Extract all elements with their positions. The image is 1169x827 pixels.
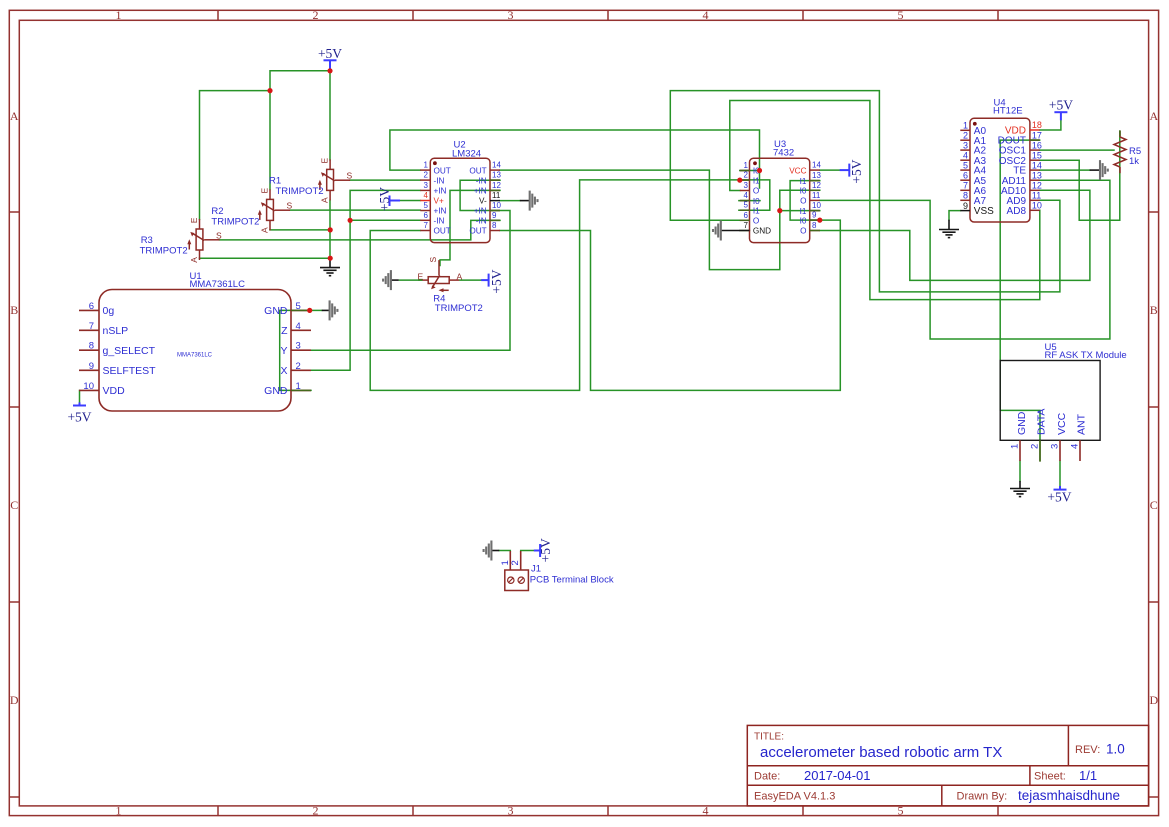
svg-text:HT12E: HT12E	[993, 106, 1023, 117]
svg-text:9: 9	[492, 211, 497, 220]
wire U5 GND pin to ground	[1019, 461, 1021, 481]
svg-text:S: S	[347, 171, 353, 181]
U1 pin names	[103, 305, 157, 397]
junction dots	[267, 68, 822, 313]
svg-text:V-: V-	[479, 197, 487, 206]
svg-text:I1: I1	[800, 207, 807, 216]
svg-text:X: X	[280, 365, 287, 377]
wire U2 pin12 to R4 S	[440, 190, 500, 265]
svg-text:17: 17	[1032, 130, 1042, 140]
svg-text:I0: I0	[753, 197, 760, 206]
wire U5 VCC pin to +5V	[1059, 461, 1061, 486]
svg-text:D: D	[1149, 693, 1158, 707]
U3 pin names	[753, 167, 771, 236]
wire U2 pin1 to U3 pin1	[390, 130, 760, 188]
svg-text:6: 6	[744, 211, 749, 220]
svg-text:2: 2	[963, 130, 968, 140]
svg-text:+IN: +IN	[474, 187, 487, 196]
svg-text:4: 4	[744, 191, 749, 200]
U2 pin numbers	[424, 161, 429, 230]
svg-text:TRIMPOT2: TRIMPOT2	[435, 303, 483, 314]
svg-text:5: 5	[744, 201, 749, 210]
ground (R1/R2/R3 rail)	[320, 258, 340, 276]
trimpot R4 TRIMPOT2 (horizontal)	[418, 257, 483, 315]
wire U2 pin7 to U3 pin2/pin5 net	[370, 180, 770, 391]
svg-text:2: 2	[1030, 444, 1041, 449]
wire R2 A to ground rail	[270, 229, 330, 231]
svg-text:6: 6	[963, 170, 968, 180]
wire U1 X to U2 pin3 and pin6	[311, 190, 420, 370]
svg-text:+5V: +5V	[377, 187, 392, 211]
svg-text:E: E	[259, 188, 269, 194]
svg-text:R2: R2	[211, 206, 223, 217]
svg-text:Z: Z	[281, 325, 288, 337]
+5V supply (U3 VCC)	[840, 159, 864, 183]
svg-text:2: 2	[510, 560, 521, 565]
wire U1 VDD to +5V	[79, 390, 81, 402]
svg-text:13: 13	[1032, 170, 1042, 180]
resistor R5 1k	[1114, 131, 1141, 174]
svg-text:A: A	[320, 197, 330, 203]
svg-text:O: O	[800, 197, 806, 206]
svg-text:2: 2	[296, 361, 301, 372]
svg-text:TITLE:: TITLE:	[754, 732, 784, 743]
svg-text:-IN: -IN	[476, 217, 487, 226]
IC U1 MMA7361LC	[79, 271, 311, 411]
svg-text:4: 4	[296, 321, 301, 332]
svg-text:4: 4	[963, 150, 968, 160]
wire U3 pin14 to +5V	[820, 169, 840, 171]
svg-text:-IN: -IN	[434, 176, 445, 185]
svg-text:S: S	[216, 230, 222, 240]
svg-text:7432: 7432	[773, 148, 794, 159]
svg-text:A: A	[189, 257, 199, 263]
ground (U3 GND)	[713, 221, 740, 241]
svg-text:SELFTEST: SELFTEST	[103, 365, 157, 377]
junction U3 pin9	[817, 218, 822, 223]
junction R3 A on ground rail	[328, 256, 333, 261]
trimpot R3 TRIMPOT2	[140, 217, 222, 263]
U1 pin numbers	[83, 301, 94, 392]
svg-text:1: 1	[500, 560, 511, 565]
svg-text:C: C	[10, 498, 18, 512]
svg-text:1: 1	[116, 804, 122, 818]
U2 pin names	[434, 166, 451, 235]
svg-text:GND: GND	[1016, 411, 1028, 435]
svg-text:-IN: -IN	[434, 217, 445, 226]
svg-text:3: 3	[744, 181, 749, 190]
svg-text:1.0: 1.0	[1106, 742, 1125, 757]
svg-text:MMA7361LC: MMA7361LC	[177, 353, 213, 359]
ground (U1 GND5)	[322, 300, 338, 320]
wire over U1 GND5 stub	[291, 309, 310, 311]
module U5 RF ASK TX	[1000, 342, 1127, 461]
svg-text:RF ASK TX Module: RF ASK TX Module	[1045, 350, 1127, 361]
wire over U1 GND1 stub	[291, 389, 311, 391]
svg-text:O: O	[753, 217, 759, 226]
svg-text:B: B	[1150, 303, 1158, 317]
svg-text:+5V: +5V	[538, 538, 553, 562]
svg-text:10: 10	[83, 381, 94, 392]
wire +5V rail to R1/R2/R3 E pins	[270, 71, 330, 91]
trimpot R1 TRIMPOT2	[269, 158, 353, 204]
svg-text:8: 8	[89, 341, 94, 352]
svg-text:O: O	[800, 227, 806, 236]
svg-text:TRIMPOT2: TRIMPOT2	[276, 186, 324, 197]
svg-text:GND: GND	[264, 305, 288, 317]
wire R2 S to U2 pin5	[290, 209, 420, 211]
svg-text:15: 15	[1032, 150, 1042, 160]
svg-text:12: 12	[812, 181, 821, 190]
junction U3 pin2	[737, 178, 742, 183]
svg-text:16: 16	[1032, 140, 1042, 150]
svg-text:9: 9	[812, 211, 817, 220]
ground (J1 pin1)	[484, 541, 500, 561]
U2 pin1 marker	[433, 161, 437, 165]
wire U3 pin7 to ground	[740, 230, 750, 232]
svg-text:V+: V+	[434, 197, 444, 206]
svg-text:VSS: VSS	[974, 206, 994, 217]
svg-text:GND: GND	[264, 385, 288, 397]
connector J1 PCB Terminal Block	[500, 551, 614, 591]
wire U4 VDD to +5V	[1040, 120, 1061, 130]
wire U3 pin6 to U4 AD9	[670, 91, 1060, 292]
svg-text:2: 2	[424, 171, 429, 180]
svg-text:O: O	[753, 187, 759, 196]
U4 pin names	[974, 126, 994, 217]
wire U4 TE to ground	[1040, 169, 1090, 171]
U3 pin1 marker	[753, 161, 757, 165]
U4 pin1 marker	[973, 122, 977, 126]
svg-text:1/1: 1/1	[1079, 768, 1097, 783]
svg-text:4: 4	[703, 8, 709, 22]
svg-text:VDD: VDD	[103, 385, 126, 397]
junction U1 GND5	[307, 308, 312, 313]
svg-text:1: 1	[1010, 444, 1021, 449]
svg-text:I0: I0	[800, 216, 807, 225]
svg-text:1: 1	[744, 161, 749, 170]
svg-text:REV:: REV:	[1075, 744, 1100, 756]
U5 pin numbers	[1010, 444, 1081, 449]
svg-text:OUT: OUT	[469, 166, 486, 175]
junction U2 pin6 tap	[348, 218, 353, 223]
+5V supply (U4 VDD)	[1049, 98, 1073, 121]
svg-text:0g: 0g	[103, 305, 115, 317]
svg-text:2: 2	[313, 8, 319, 22]
svg-text:6: 6	[89, 301, 94, 312]
U5 pin names	[1016, 409, 1088, 435]
svg-text:ANT: ANT	[1076, 413, 1088, 435]
svg-text:I1: I1	[753, 206, 760, 215]
svg-text:Date:: Date:	[754, 771, 780, 783]
svg-text:13: 13	[492, 171, 501, 180]
svg-text:TRIMPOT2: TRIMPOT2	[140, 246, 188, 257]
svg-text:EasyEDA V4.1.3: EasyEDA V4.1.3	[754, 791, 835, 803]
svg-text:11: 11	[812, 191, 821, 200]
svg-text:R1: R1	[269, 176, 281, 187]
svg-text:GND: GND	[753, 227, 771, 236]
wire R1 A to ground rail	[329, 200, 331, 258]
ground (R4 E)	[383, 270, 422, 290]
svg-text:OUT: OUT	[469, 227, 486, 236]
svg-text:14: 14	[492, 161, 501, 170]
wire U3 pin11 to U4 AD11	[820, 180, 1110, 339]
svg-text:+IN: +IN	[474, 207, 487, 216]
svg-text:J1: J1	[531, 564, 541, 575]
wire U4 OSC1 to R5	[1040, 149, 1114, 151]
svg-text:5: 5	[963, 160, 968, 170]
IC U2 LM324	[420, 140, 501, 243]
ground (U5 GND)	[1010, 481, 1030, 497]
wire over U4 DOUT stub	[1030, 139, 1040, 141]
J1 pin numbers	[500, 560, 521, 565]
svg-text:accelerometer based robotic ar: accelerometer based robotic arm TX	[760, 744, 1002, 761]
svg-text:R3: R3	[141, 235, 153, 246]
svg-text:MMA7361LC: MMA7361LC	[190, 279, 246, 290]
svg-text:14: 14	[1032, 160, 1042, 170]
ground (U4 VSS)	[939, 220, 959, 238]
wire R3 S to U2 pin9	[220, 220, 501, 240]
svg-text:VCC: VCC	[789, 166, 806, 175]
svg-text:Sheet:: Sheet:	[1034, 771, 1066, 783]
svg-text:-IN: -IN	[476, 176, 487, 185]
wire U4 DOUT to U5 DATA	[1000, 140, 1040, 440]
svg-text:1: 1	[116, 8, 122, 22]
svg-text:13: 13	[812, 171, 821, 180]
wire U2 pin14 to U3 pin10/12 net	[500, 170, 780, 270]
svg-text:B: B	[10, 303, 18, 317]
svg-text:OUT: OUT	[434, 166, 451, 175]
svg-text:5: 5	[424, 201, 429, 210]
wire U1 GND5 to GND1 internal	[280, 310, 311, 390]
wire U3 pin4 stub	[739, 200, 760, 202]
svg-text:3: 3	[1050, 444, 1061, 449]
wire U2 pin8 to U3 pin9/pin13 net	[500, 181, 840, 391]
wire U4 VSS to ground	[949, 211, 960, 220]
svg-text:+5V: +5V	[318, 46, 342, 61]
wire U3 pin3 to U4 AD8	[730, 101, 1040, 300]
svg-text:7: 7	[744, 221, 749, 230]
svg-text:Y: Y	[280, 345, 287, 357]
ground (U2 V-)	[520, 191, 538, 211]
svg-text:3: 3	[508, 804, 514, 818]
svg-text:A: A	[1149, 109, 1158, 123]
wire overlaps on pin stubs (blended colour)	[291, 140, 1040, 390]
svg-text:2017-04-01: 2017-04-01	[804, 768, 871, 783]
svg-text:I0: I0	[800, 187, 807, 196]
svg-text:3: 3	[508, 8, 514, 22]
wire U1 Y to U2 pin10 and pin13	[311, 180, 510, 350]
wire U2 pin4 to +5V	[400, 200, 420, 202]
svg-text:S: S	[428, 257, 438, 263]
svg-text:A: A	[10, 109, 19, 123]
svg-text:6: 6	[424, 211, 429, 220]
+5V supply (top rail)	[318, 46, 342, 71]
svg-text:VCC: VCC	[1056, 412, 1068, 435]
U4 pin numbers	[963, 121, 968, 211]
svg-text:3: 3	[296, 341, 301, 352]
title block	[747, 725, 1148, 806]
svg-text:PCB Terminal Block: PCB Terminal Block	[530, 575, 614, 586]
trimpot R2 TRIMPOT2	[211, 188, 292, 234]
+5V supply (R4 A)	[481, 269, 504, 293]
svg-text:OUT: OUT	[434, 227, 451, 236]
junction R2 A on ground rail	[328, 227, 333, 232]
svg-text:1: 1	[424, 161, 429, 170]
svg-text:I1: I1	[753, 176, 760, 185]
+5V supply (U5 VCC)	[1047, 486, 1071, 505]
wire R1 S to U2 pin2	[350, 179, 420, 181]
svg-text:10: 10	[492, 201, 501, 210]
wire R3 A to ground rail	[200, 257, 331, 259]
svg-text:E: E	[320, 158, 330, 164]
svg-text:DATA: DATA	[1036, 409, 1048, 435]
svg-text:9: 9	[89, 361, 94, 372]
svg-text:+5V: +5V	[489, 269, 504, 293]
junction U3 pin10 net	[777, 208, 782, 213]
IC U4 HT12E	[960, 98, 1042, 223]
wire J1 pin2 to +5V	[521, 550, 534, 553]
svg-text:8: 8	[812, 221, 817, 230]
svg-text:4: 4	[1070, 444, 1081, 449]
svg-text:4: 4	[703, 804, 709, 818]
svg-text:12: 12	[492, 181, 501, 190]
wire U1 GND5 to ground	[310, 309, 322, 311]
svg-text:+IN: +IN	[434, 187, 447, 196]
svg-text:11: 11	[492, 191, 501, 200]
svg-text:2: 2	[313, 804, 319, 818]
svg-text:nSLP: nSLP	[103, 325, 129, 337]
svg-text:AD8: AD8	[1007, 206, 1027, 217]
wire over U3 left stubs	[740, 170, 750, 172]
junction R2/R3 E branch	[267, 88, 272, 93]
+5V supply (J1 pin2)	[534, 538, 553, 562]
svg-text:C: C	[1150, 498, 1158, 512]
wire U3 pin8 to U4 AD10	[820, 190, 1090, 280]
svg-text:A: A	[259, 227, 269, 233]
svg-text:E: E	[189, 217, 199, 223]
wire U2 pin11 to ground	[500, 200, 520, 202]
+5V supply (U1 VDD)	[67, 402, 91, 424]
svg-text:10: 10	[812, 201, 821, 210]
junction +5V top rail	[327, 68, 332, 73]
IC U3 7432	[740, 139, 822, 243]
svg-text:2: 2	[744, 171, 749, 180]
wire J1 pin1 to ground	[499, 550, 510, 553]
svg-text:5: 5	[898, 8, 904, 22]
wire over U2 right stubs	[490, 179, 500, 181]
svg-text:D: D	[10, 693, 19, 707]
wire U4 OSC2 to R5 bottom	[1040, 131, 1120, 220]
svg-text:+5V: +5V	[1049, 98, 1073, 113]
svg-text:14: 14	[812, 161, 821, 170]
svg-text:g_SELECT: g_SELECT	[103, 345, 156, 357]
ground (U4 TE)	[1090, 160, 1108, 180]
svg-text:TRIMPOT2: TRIMPOT2	[211, 217, 259, 228]
svg-text:tejasmhaisdhune: tejasmhaisdhune	[1018, 788, 1120, 803]
svg-text:+5V: +5V	[67, 410, 91, 425]
svg-text:+5V: +5V	[849, 159, 864, 183]
svg-text:3: 3	[963, 140, 968, 150]
wire R4 A to +5V	[460, 279, 481, 281]
U3 pin numbers	[744, 161, 749, 230]
svg-text:3: 3	[424, 181, 429, 190]
svg-text:8: 8	[492, 221, 497, 230]
svg-text:10: 10	[1032, 201, 1042, 211]
svg-text:7: 7	[963, 181, 968, 191]
svg-text:Drawn By:: Drawn By:	[957, 791, 1008, 803]
+5V supply (U2 pin4)	[377, 187, 400, 211]
svg-text:8: 8	[963, 191, 968, 201]
svg-text:S: S	[287, 201, 293, 211]
svg-text:+IN: +IN	[434, 207, 447, 216]
svg-text:1k: 1k	[1129, 156, 1139, 167]
junction U3 pin1	[757, 168, 762, 173]
svg-text:LM324: LM324	[452, 149, 481, 160]
svg-text:4: 4	[424, 191, 429, 200]
svg-text:1: 1	[963, 121, 968, 131]
svg-text:18: 18	[1032, 120, 1042, 130]
svg-text:7: 7	[424, 221, 429, 230]
svg-text:7: 7	[89, 321, 94, 332]
svg-text:9: 9	[963, 201, 968, 211]
svg-text:11: 11	[1032, 191, 1041, 201]
svg-text:I1: I1	[800, 177, 807, 186]
svg-text:+5V: +5V	[1047, 490, 1071, 505]
svg-text:12: 12	[1032, 181, 1042, 191]
svg-text:A: A	[457, 272, 463, 282]
wire over U3 right stubs	[810, 180, 820, 182]
